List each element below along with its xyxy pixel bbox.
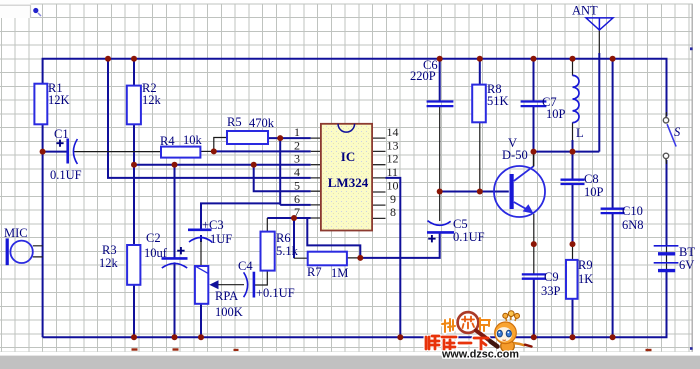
svg-text:www.dzsc.com: www.dzsc.com <box>441 349 519 361</box>
svg-text:5.1k: 5.1k <box>276 244 299 258</box>
svg-text:10P: 10P <box>546 107 566 121</box>
svg-text:+C3: +C3 <box>202 218 224 232</box>
svg-text:3: 3 <box>294 152 300 166</box>
svg-text:10: 10 <box>387 178 399 192</box>
svg-text:13: 13 <box>387 138 399 152</box>
svg-text:220P: 220P <box>410 69 436 83</box>
svg-text:470k: 470k <box>249 116 275 130</box>
svg-text:11: 11 <box>387 165 399 179</box>
svg-text:6N8: 6N8 <box>622 218 644 232</box>
svg-text:C10: C10 <box>622 204 643 218</box>
svg-text:R4: R4 <box>160 134 175 148</box>
svg-text:LM324: LM324 <box>328 175 369 190</box>
svg-text:C8: C8 <box>584 172 599 186</box>
svg-text:1: 1 <box>294 125 300 139</box>
svg-text:4: 4 <box>294 165 300 179</box>
svg-text:12k: 12k <box>142 93 162 107</box>
svg-text:5: 5 <box>294 178 300 192</box>
svg-text:10uf: 10uf <box>144 246 168 260</box>
svg-text:10P: 10P <box>584 185 604 199</box>
svg-text:1K: 1K <box>578 272 593 286</box>
svg-text:L: L <box>576 126 584 140</box>
svg-text:10k: 10k <box>183 133 203 147</box>
svg-text:R5: R5 <box>227 115 242 129</box>
svg-text:6V: 6V <box>679 258 694 272</box>
svg-text:12: 12 <box>387 152 399 166</box>
svg-text:8: 8 <box>390 205 396 219</box>
svg-text:14: 14 <box>387 125 399 139</box>
svg-text:1M: 1M <box>331 266 348 280</box>
svg-text:7: 7 <box>294 205 300 219</box>
svg-text:1UF: 1UF <box>210 232 232 246</box>
svg-text:C9: C9 <box>544 270 559 284</box>
svg-text:C4: C4 <box>238 259 253 273</box>
svg-text:12K: 12K <box>48 93 70 107</box>
svg-text:D-50: D-50 <box>502 148 528 162</box>
svg-text:33P: 33P <box>541 284 561 298</box>
svg-text:51K: 51K <box>487 94 509 108</box>
svg-text:9: 9 <box>390 192 396 206</box>
svg-text:+0.1UF: +0.1UF <box>256 286 295 300</box>
svg-text:6: 6 <box>294 192 300 206</box>
svg-text:R3: R3 <box>102 243 117 257</box>
svg-text:BT: BT <box>679 245 695 259</box>
svg-text:2: 2 <box>294 138 300 152</box>
svg-text:MIC: MIC <box>4 226 28 240</box>
svg-text:R9: R9 <box>578 258 593 272</box>
svg-text:C2: C2 <box>146 231 161 245</box>
svg-text:S: S <box>674 125 681 139</box>
svg-text:R7: R7 <box>307 265 322 279</box>
svg-text:IC: IC <box>341 149 355 164</box>
svg-text:RPA: RPA <box>215 289 238 303</box>
svg-text:100K: 100K <box>215 305 243 319</box>
svg-text:C1: C1 <box>54 127 69 141</box>
svg-text:ANT: ANT <box>572 4 598 18</box>
svg-text:C5: C5 <box>453 217 468 231</box>
svg-text:R6: R6 <box>276 231 291 245</box>
svg-text:0.1UF: 0.1UF <box>453 230 485 244</box>
svg-text:12k: 12k <box>99 256 119 270</box>
svg-text:0.1UF: 0.1UF <box>50 168 82 182</box>
